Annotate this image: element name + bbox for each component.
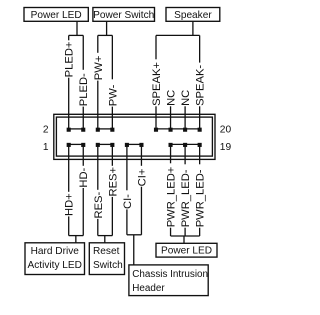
box Power Switch [93,8,155,22]
svg-text:Power LED: Power LED [161,246,212,257]
wire CI- upper segment from pin (col 4) [126,145,128,190]
svg-text:RES-: RES- [93,191,105,218]
wire bracket Speaker pair [156,34,200,36]
pin 6 (top row col 2) [96,128,100,132]
wire PW- upper segment (col 3) [111,35,113,79]
wire HD+ lower segment to bracket [68,216,70,235]
wire bracket Chassis Intrusion pair [127,234,142,236]
svg-text:Switch: Switch [93,260,123,271]
svg-text:SPEAK-: SPEAK- [195,65,207,106]
box Power LED (top) [24,8,88,22]
svg-text:Speaker: Speaker [174,10,212,21]
tie pins 15-19 [171,143,200,145]
svg-text:Activity LED: Activity LED [28,260,82,271]
wire CI+ lower segment to bracket [140,187,142,235]
connector inner outline [56,117,212,156]
svg-text:PW+: PW+ [93,56,105,81]
box Reset Switch [89,243,124,275]
pin 2 (top row col 0) [67,128,71,132]
pin 5 (bottom row col 2) [96,143,100,147]
wire PLED- lower segment to pin [82,107,84,130]
wire stem to Power LED box (bottom) [183,236,185,243]
svg-text:NC: NC [166,90,178,106]
wire PLED+ lower segment to pin [68,78,70,130]
wire stem from Power LED box [76,21,78,35]
wire bracket Reset Switch pair [98,235,113,237]
svg-text:PWR_LED-: PWR_LED- [195,169,207,227]
wire PWR_LED- upper segment from pin (col 8) [184,145,186,164]
wire stem from Power Switch box [106,21,108,35]
wire RES+ lower segment to bracket [111,197,113,236]
wire bracket Hard Drive LED pair [69,235,84,237]
wire SPEAK+ lower segment to pin [155,106,157,129]
wire HD- upper segment from pin (col 1) [82,145,84,166]
svg-text:NC: NC [180,90,192,106]
svg-text:Power Switch: Power Switch [93,10,154,21]
svg-text:20: 20 [220,125,232,136]
wire PWR_LED+ lower segment to bracket [170,228,172,236]
pin 19 (bottom row col 9) [198,143,202,147]
wire PWR_LED- lower segment to bracket [199,228,201,236]
svg-text:Hard Drive: Hard Drive [31,246,80,257]
svg-text:Chassis Intrusion: Chassis Intrusion [132,269,208,280]
pin 18 (top row col 8) [183,128,187,132]
wire PW+ upper segment (col 2) [97,35,99,52]
svg-text:PWR_LED+: PWR_LED+ [166,167,178,228]
box Power LED (bottom) [156,243,217,257]
wire PW- lower segment to pin [111,107,113,130]
wire bracket Power Switch pair [98,34,113,36]
tie pins 6-8 [98,128,113,130]
svg-text:CI-: CI- [122,194,134,209]
svg-text:PW-: PW- [107,84,119,106]
pin 20 (top row col 9) [198,128,202,132]
pin 16 (top row col 7) [169,128,173,132]
tie pins 1-3 [69,143,84,145]
svg-text:SPEAK+: SPEAK+ [151,62,163,106]
pin 7 (bottom row col 3) [110,143,114,147]
wire SPEAK+ upper segment (col 6) [155,35,157,59]
pin 1 (bottom row col 0) [67,143,71,147]
wire RES- upper segment from pin (col 2) [97,145,99,190]
pin 8 (top row col 3) [110,128,114,132]
wire stem from Speaker box [192,21,194,35]
svg-text:19: 19 [220,142,232,153]
svg-text:PWR_LED-: PWR_LED- [180,169,192,227]
box Hard Drive Activity LED [25,243,85,275]
pin 15 (bottom row col 7) [169,143,173,147]
connector outer outline [54,114,215,159]
svg-text:PLED+: PLED+ [64,42,76,78]
pin 14 (top row col 6) [154,128,158,132]
wire HD+ upper segment from pin (col 0) [68,145,70,192]
wire bracket Power LED triple [171,235,200,237]
wire RES- lower segment to bracket [97,219,99,236]
wire SPEAK- upper segment (col 9) [199,35,201,62]
box Chassis Intrusion Header [129,265,208,296]
wire SPEAK- lower segment to pin [199,106,201,129]
wire PWR_LED+ upper segment from pin (col 7) [170,145,172,163]
wire NC lower segment to pin [170,106,172,129]
tie pins 14-20 [156,128,200,130]
svg-text:Reset: Reset [93,246,120,257]
svg-text:HD-: HD- [78,167,90,187]
wire PWR_LED- lower segment to bracket [184,228,186,236]
wire PLED- upper segment (col 1) [82,35,84,69]
wire PWR_LED- upper segment from pin (col 9) [199,145,201,164]
tie pins 2-4 [69,128,84,130]
svg-text:2: 2 [43,125,49,136]
wire stem to Chassis Intrusion box [133,235,135,265]
wire bracket Power LED pair [69,34,84,36]
tie pins 9-11 [127,143,142,145]
wire stem to Reset Switch box [104,236,106,243]
svg-text:Power LED: Power LED [31,10,82,21]
svg-text:CI+: CI+ [136,169,148,187]
wire PLED+ upper segment (col 0) [68,35,70,40]
pin 17 (bottom row col 8) [183,143,187,147]
svg-text:1: 1 [43,142,49,153]
pin 11 (bottom row col 5) [139,143,143,147]
pin 9 (bottom row col 4) [125,143,129,147]
svg-text:HD+: HD+ [64,193,76,216]
wire stem to Hard Drive LED box [75,236,77,243]
svg-text:RES+: RES+ [107,167,119,197]
wire NC lower segment to pin [184,106,186,129]
wire PW+ lower segment to pin [97,81,99,130]
box Speaker [166,8,220,22]
pin 4 (top row col 1) [81,128,85,132]
svg-text:PLED-: PLED- [78,73,90,106]
wire HD- lower segment to bracket [82,188,84,236]
wire CI+ upper segment from pin (col 5) [140,145,142,166]
pin 3 (bottom row col 1) [81,143,85,147]
tie pins 5-7 [98,143,113,145]
svg-text:Header: Header [132,283,165,294]
wire RES+ upper segment from pin (col 3) [111,145,113,166]
wire CI- lower segment to bracket [126,209,128,234]
